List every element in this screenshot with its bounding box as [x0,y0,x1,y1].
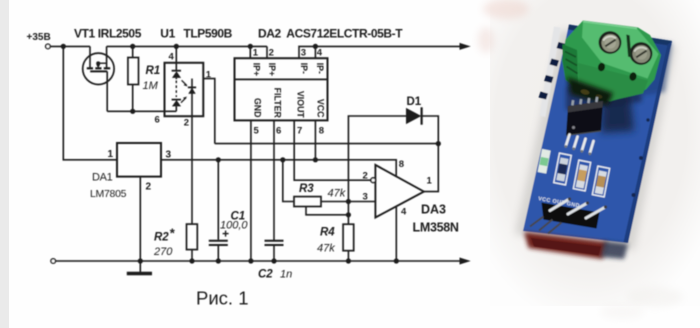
svg-text:1n: 1n [280,268,292,280]
node DA2 pin4 [313,44,318,49]
photo bottom-right faint ghost [627,287,683,307]
terminal block body [562,21,661,102]
wire ground rail [56,260,462,262]
svg-text:LM358N: LM358N [413,220,459,234]
svg-text:*: * [170,226,176,241]
chip bottom pins [566,135,594,154]
node R3 branch [280,157,285,162]
svg-text:R3: R3 [299,183,314,195]
node R3 right / op-amp pin3 [346,199,351,204]
svg-text:3: 3 [363,191,368,202]
svg-text:TLP590B: TLP590B [183,27,232,41]
wire top rail right with DA2 pin3 stub [299,46,461,58]
node ground terminal [51,259,56,264]
node U1 pin4 [174,44,179,49]
svg-text:IP-: IP- [315,63,325,74]
svg-text:4: 4 [169,52,175,63]
node DA2 pin8 [313,157,318,162]
smd part 3 [573,160,590,191]
svg-text:VT1 IRL2505: VT1 IRL2505 [74,27,142,41]
capacitor C2 [265,241,284,261]
svg-text:1: 1 [253,47,259,58]
svg-text:ACS712ELCTR-05B-T: ACS712ELCTR-05B-T [286,27,403,41]
wire output vertical to op-amp pin1 [424,144,438,192]
svg-text:R1: R1 [146,65,161,77]
svg-text:2: 2 [146,181,152,192]
chip DA2 ACS712 [235,58,328,120]
svg-text:C2: C2 [258,268,273,280]
wire DA1 pin2 to ground [139,177,141,273]
resistor R1 [128,46,139,111]
wire1 horizontal (U1 pin1 to output node) [215,143,438,145]
capacitor C1 [209,160,229,261]
svg-text:47k: 47k [328,188,346,200]
svg-text:DA3: DA3 [421,203,446,217]
chip top pins [571,97,598,106]
wire 5V rail (DA1 pin3 to DA3 pin8) [161,160,396,177]
node +35V input terminal [46,44,51,49]
svg-text:1M: 1M [143,80,159,92]
ground [127,272,152,275]
wire DA2 pin6 to C2 [273,120,275,240]
svg-text:100,0: 100,0 [220,220,248,232]
wire DA2 pin7 to op-amp pin2 [294,120,371,180]
photo background [490,0,700,306]
svg-text:IP+: IP+ [267,63,277,76]
diode D1 [348,107,438,201]
svg-text:IP-: IP- [299,63,309,74]
board vias [639,156,643,160]
svg-text:8: 8 [319,125,324,136]
terminal screw 1 [599,31,622,54]
chip DA1 LM7805 [117,143,161,177]
svg-text:4: 4 [401,206,407,217]
terminal front face [578,63,648,101]
node C2 ground [271,258,276,263]
svg-text:D1: D1 [407,96,422,108]
svg-text:VIOUT: VIOUT [296,91,306,119]
node R2 ground [189,258,194,263]
svg-text:R4: R4 [320,227,335,239]
node output right [436,141,441,146]
arrow ground output [460,258,471,265]
node C1 top [216,157,221,162]
svg-text:IP+: IP+ [251,63,261,76]
node R1 bottom [130,109,135,114]
resistor R4 [343,202,354,262]
transistor VT1 (IRL2505 MOSFET) [83,46,114,111]
svg-text:DA1: DA1 [92,171,113,183]
terminal divider slot [626,35,631,58]
board shadow [515,30,676,250]
svg-text:8: 8 [399,159,404,170]
wire DA2 pin8 stub [314,120,316,159]
PCB edge pads [557,42,567,50]
smd part 2 [554,153,572,185]
wire gate line (VT1 gate / R1 bottom / U1 pin6) [107,110,176,112]
svg-text:2: 2 [269,47,274,58]
shadow under terminal on board [566,80,642,110]
node R4 ground [346,258,351,263]
svg-text:Рис. 1: Рис. 1 [196,288,249,309]
svg-text:DA2: DA2 [258,27,282,41]
svg-text:1: 1 [206,69,212,80]
wire U1 pin1 to wire1 [203,79,215,144]
node DA1 pin2 at ground wire [138,258,143,263]
op-to coupler U1 TLP590B [165,46,204,116]
shadow right of terminal on board [638,40,672,96]
node junction at +35V [61,44,66,49]
op-amp DA3 LM358N [371,165,424,261]
svg-text:+35В: +35В [27,32,51,43]
svg-text:4: 4 [317,47,323,58]
svg-text:FILTER: FILTER [273,88,283,119]
svg-text:6: 6 [276,125,281,136]
terminal left face [563,44,579,91]
node DA2 pin1 [248,44,253,49]
svg-text:3: 3 [301,47,306,58]
wire U1 pin2 down to R2 [191,116,193,224]
page left gray strip [0,0,9,328]
svg-text:270: 270 [153,246,173,258]
resistor R3 [283,160,376,215]
svg-text:GND: GND [253,98,263,118]
wire top rail middle (VT1 to DA2 pin2) [107,45,267,47]
svg-text:VCC: VCC [316,99,326,118]
terminal block top face [582,22,659,79]
wire left vertical to DA1 pin1 [63,46,117,159]
pin header [542,203,600,229]
node pin5 ground [248,258,253,263]
svg-text:2: 2 [184,117,189,128]
terminal under shadow [567,77,613,106]
node DA3 pin4 ground [394,258,399,263]
PCB board [523,25,672,244]
PCB white left edge [540,27,561,118]
wire DA2 pin4 stub [314,46,316,58]
node C1 ground [216,258,221,263]
svg-text:U1: U1 [160,27,175,41]
svg-text:3: 3 [166,149,172,160]
terminal screw 2 [630,42,653,65]
smd LED [538,149,551,174]
svg-text:R2: R2 [154,232,169,244]
smd part 4 [592,166,609,197]
wire DA2 pin1 stub [249,46,251,58]
photo: ACS712 module [478,0,700,319]
svg-text:47k: 47k [317,242,335,254]
wire DA2 pin5 to ground [250,120,252,261]
svg-text:2: 2 [363,171,368,182]
chip U ACS712 SOIC-8 [566,101,603,136]
svg-text:LM7805: LM7805 [90,188,127,200]
arrow top output [460,43,471,50]
wire DA2 pin2 stub [266,46,268,58]
svg-text:1: 1 [427,175,433,186]
svg-text:6: 6 [155,114,160,125]
svg-text:1: 1 [108,149,114,160]
chip shadow right [601,92,634,133]
svg-text:7: 7 [297,125,302,136]
wire top rail left [50,45,90,47]
node R1 top [130,44,135,49]
PCB red bottom band [524,232,607,259]
svg-text:5: 5 [254,125,260,136]
photo pink blur top-left [483,0,529,19]
resistor R2 [187,224,198,261]
node R3 tap [346,212,351,217]
